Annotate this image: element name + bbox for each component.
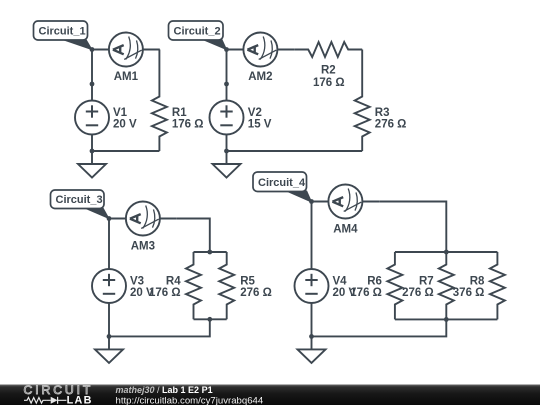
svg-text:Circuit_2: Circuit_2 (174, 25, 221, 37)
svg-text:R8: R8 (470, 276, 485, 288)
resistor R7 (439, 252, 454, 319)
voltage source V1 (75, 84, 109, 151)
svg-text:R3: R3 (375, 107, 390, 119)
junction node (207, 250, 212, 255)
resistor R6 (387, 252, 402, 319)
junction node (107, 334, 112, 339)
junction node (90, 149, 95, 154)
wire (395, 318, 498, 320)
svg-text:LAB: LAB (67, 394, 93, 405)
junction node (207, 317, 212, 322)
svg-text:Circuit_1: Circuit_1 (39, 25, 86, 37)
svg-text:V2: V2 (248, 107, 262, 119)
wire (379, 202, 446, 253)
svg-text:AM2: AM2 (248, 71, 272, 83)
svg-text:20 V: 20 V (113, 119, 137, 131)
svg-text:176 Ω: 176 Ω (350, 287, 382, 299)
wire (311, 202, 313, 253)
wire (194, 318, 227, 320)
logo resistor-diode glyph (24, 397, 66, 404)
ammeter AM4 (312, 185, 380, 219)
ammeter AM1 (92, 33, 160, 67)
junction node (90, 82, 95, 87)
ground (298, 336, 326, 363)
svg-text:V3: V3 (130, 276, 144, 288)
resistor R2 (294, 42, 362, 57)
junction node (90, 47, 95, 52)
svg-text:R6: R6 (367, 276, 382, 288)
svg-text:376 Ω: 376 Ω (453, 287, 485, 299)
label callout Circuit_4 (253, 172, 313, 203)
svg-text:mathej30 / Lab 1 E2 P1: mathej30 / Lab 1 E2 P1 (116, 385, 213, 395)
junction node (224, 149, 229, 154)
svg-text:Circuit_4: Circuit_4 (258, 177, 306, 189)
ground (95, 336, 123, 363)
wire (158, 50, 160, 85)
svg-text:R5: R5 (240, 276, 255, 288)
junction node (444, 317, 449, 322)
ammeter AM3 (109, 202, 177, 236)
resistor R1 (152, 84, 167, 151)
svg-text:AM3: AM3 (131, 240, 155, 252)
wire (91, 50, 93, 85)
voltage source V2 (210, 84, 244, 151)
svg-text:R2: R2 (321, 65, 336, 77)
ground (78, 151, 106, 178)
wire (109, 319, 210, 336)
svg-text:15 V: 15 V (248, 119, 272, 131)
junction node (309, 334, 314, 339)
ground (213, 151, 241, 178)
svg-text:V4: V4 (333, 276, 348, 288)
svg-text:Circuit_3: Circuit_3 (56, 194, 103, 206)
svg-text:176 Ω: 176 Ω (313, 77, 345, 89)
resistor R5 (219, 252, 234, 319)
label callout Circuit_1 (34, 21, 94, 51)
svg-text:V1: V1 (113, 107, 128, 119)
svg-text:176 Ω: 176 Ω (172, 119, 204, 131)
svg-text:276 Ω: 276 Ω (240, 287, 272, 299)
wire (361, 50, 363, 85)
resistor R4 (186, 252, 201, 319)
voltage source V3 (92, 252, 126, 320)
wire (311, 320, 313, 336)
wire (92, 150, 159, 152)
junction node (107, 216, 112, 221)
wire (395, 251, 498, 253)
wire (194, 251, 227, 253)
junction node (309, 199, 314, 204)
svg-text:276 Ω: 276 Ω (375, 119, 407, 131)
svg-text:R1: R1 (172, 107, 187, 119)
svg-text:AM1: AM1 (114, 71, 139, 83)
wire (177, 219, 210, 253)
wire (312, 319, 447, 336)
resistor R3 (355, 84, 370, 151)
svg-text:AM4: AM4 (333, 223, 358, 235)
junction node (224, 82, 229, 87)
wire (108, 219, 110, 253)
wire (226, 50, 228, 85)
svg-text:176 Ω: 176 Ω (149, 287, 181, 299)
resistor R8 (490, 252, 505, 319)
svg-text:276 Ω: 276 Ω (402, 287, 434, 299)
label callout Circuit_3 (51, 190, 111, 220)
junction node (444, 250, 449, 255)
wire (227, 150, 363, 152)
svg-text:R4: R4 (166, 276, 181, 288)
wire (108, 320, 110, 336)
svg-text:R7: R7 (419, 276, 434, 288)
junction node (224, 47, 229, 52)
label callout Circuit_2 (169, 21, 228, 51)
ammeter AM2 (227, 33, 295, 67)
svg-text:http://circuitlab.com/cy7juvra: http://circuitlab.com/cy7juvrabq644 (116, 395, 264, 405)
voltage source V4 (295, 252, 329, 320)
